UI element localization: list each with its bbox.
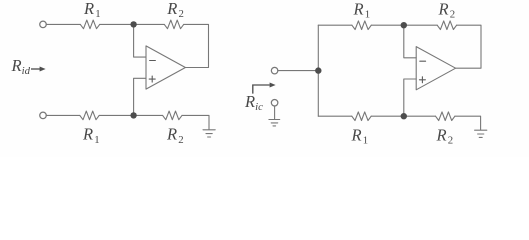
ground (reference probe)	[269, 120, 280, 126]
wire	[100, 23, 134, 25]
node D junction top	[401, 22, 407, 28]
svg-text:R1: R1	[353, 0, 371, 21]
terminal bottom-left input	[40, 112, 47, 119]
svg-text:R1: R1	[83, 0, 101, 20]
svg-text:Ric: Ric	[244, 92, 263, 113]
terminal top-left input	[40, 21, 47, 28]
plus sign	[419, 77, 425, 83]
svg-text:Rid: Rid	[11, 56, 31, 77]
op-amp U1	[146, 46, 185, 89]
terminal input (right circuit)	[271, 67, 278, 74]
svg-text:R1: R1	[351, 125, 369, 146]
arrow Ric (L-shaped)	[253, 83, 276, 94]
svg-text:R2: R2	[166, 0, 184, 20]
resistor R1 (left top)	[80, 20, 99, 29]
wire	[371, 24, 437, 26]
node E junction bottom	[401, 113, 407, 119]
resistor R1 (right bottom)	[352, 112, 371, 121]
wire	[278, 70, 319, 72]
wire to ground	[455, 116, 481, 130]
op-amp U2	[416, 47, 455, 90]
wire	[274, 106, 276, 119]
wire to ground	[182, 115, 209, 129]
wire	[456, 25, 481, 68]
svg-text:R2: R2	[166, 125, 184, 146]
node B junction bottom	[130, 112, 136, 118]
node C junction input	[315, 67, 321, 73]
plus sign	[149, 76, 155, 82]
wire vertical bus	[317, 25, 319, 116]
ground (right circuit)	[475, 130, 487, 137]
wire plus input	[404, 79, 416, 116]
wire	[99, 114, 162, 116]
wire minus feedback	[134, 24, 146, 57]
resistor R1 (right top)	[352, 21, 371, 30]
minus sign	[150, 60, 156, 62]
resistor R2 (left bottom)	[163, 111, 182, 120]
wire	[371, 115, 435, 117]
wire	[46, 114, 80, 116]
node A junction top	[130, 21, 136, 27]
svg-text:R2: R2	[438, 0, 456, 21]
resistor R2 (left top)	[164, 20, 183, 29]
resistor R1 (left bottom)	[80, 111, 99, 120]
wire	[134, 23, 165, 25]
wire	[318, 115, 352, 117]
wire minus feedback	[404, 25, 416, 58]
minus sign	[420, 60, 426, 62]
terminal reference (Ric ground probe)	[271, 99, 278, 106]
svg-text:R1: R1	[82, 125, 100, 146]
ground (left circuit)	[203, 130, 215, 137]
wire	[46, 23, 80, 25]
wire plus input	[134, 78, 146, 115]
resistor R2 (right bottom)	[436, 112, 455, 121]
wire	[318, 24, 352, 26]
resistor R2 (right top)	[437, 21, 456, 30]
wire	[184, 24, 209, 67]
arrow Rid	[31, 67, 46, 72]
svg-text:R2: R2	[436, 125, 454, 146]
